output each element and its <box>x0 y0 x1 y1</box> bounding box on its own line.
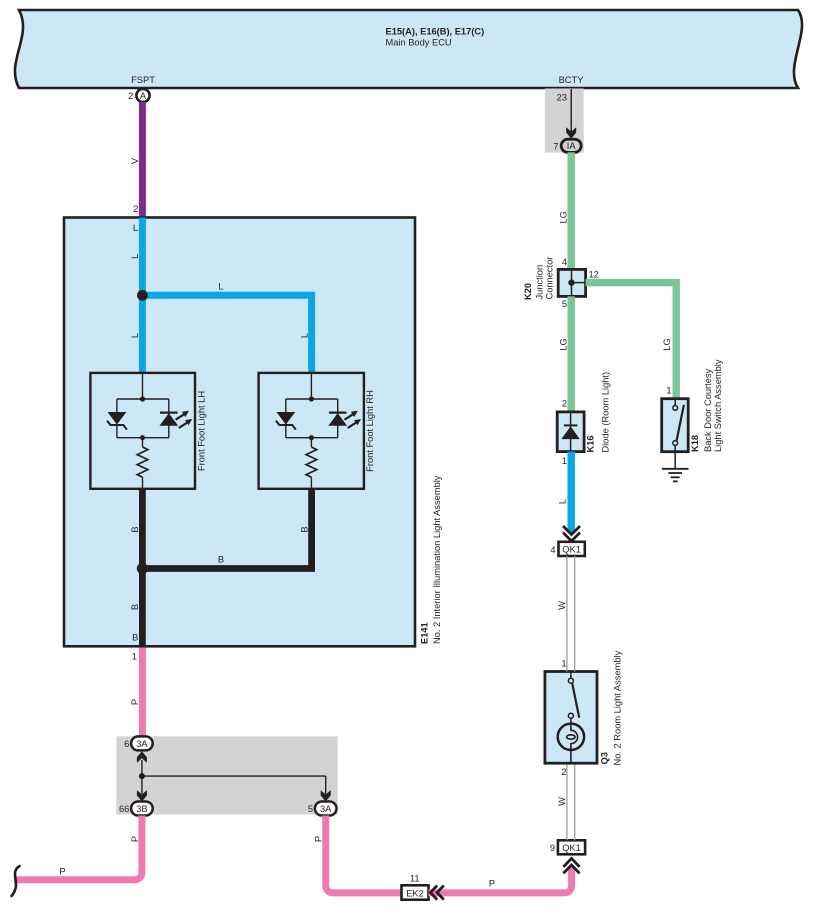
junction dot in gray box <box>139 773 145 779</box>
wire W white upper QK1 to Q3 <box>557 556 575 672</box>
resistor RH <box>306 438 317 489</box>
connector EK2 <box>402 874 429 900</box>
chevrons up into QK1 pin 9 <box>563 858 579 873</box>
svg-text:QK1: QK1 <box>562 843 581 853</box>
svg-text:1: 1 <box>132 652 137 662</box>
switch in Q3 <box>568 672 579 719</box>
wire LG green from IA to K20 <box>559 152 572 270</box>
svg-text:B: B <box>130 604 140 610</box>
junction black <box>137 563 148 574</box>
svg-text:3B: 3B <box>136 804 147 814</box>
svg-text:P: P <box>489 879 495 889</box>
svg-text:W: W <box>557 601 567 610</box>
svg-text:7: 7 <box>553 141 558 151</box>
Front Foot Light RH box <box>259 373 376 489</box>
svg-text:11: 11 <box>410 874 420 884</box>
svg-text:Light Switch Assembly: Light Switch Assembly <box>713 359 723 452</box>
svg-text:2: 2 <box>128 91 133 101</box>
svg-text:P: P <box>314 836 324 842</box>
svg-text:P: P <box>59 866 65 876</box>
bulb in Q3 <box>558 718 584 763</box>
svg-text:66: 66 <box>119 804 129 814</box>
chevrons left at EK2 <box>430 886 443 900</box>
wire W white lower from Q3 to QK1 <box>557 763 575 840</box>
svg-text:IA: IA <box>567 141 577 151</box>
pin 1 of E141 <box>132 652 137 662</box>
svg-text:L: L <box>133 223 138 233</box>
wire LG green branch K20 pin 12 to K18 <box>586 270 677 399</box>
svg-text:3A: 3A <box>136 739 148 749</box>
LH lamp internal wiring <box>117 373 169 440</box>
wire B black to E141 pin 1 <box>130 569 142 646</box>
svg-text:L: L <box>218 282 223 292</box>
svg-text:L: L <box>558 499 568 504</box>
svg-text:Back Door Courtesy: Back Door Courtesy <box>703 368 713 452</box>
LED RH <box>328 411 361 428</box>
svg-text:4: 4 <box>550 545 555 555</box>
Q3 No.2 Room Light Assembly box <box>545 650 623 776</box>
connector QK1 pin 9 <box>550 840 585 854</box>
arrow down into 3B <box>137 776 147 801</box>
svg-text:No. 2 Room Light Assembly: No. 2 Room Light Assembly <box>613 650 623 765</box>
LED LH <box>159 411 192 428</box>
svg-text:3A: 3A <box>320 804 332 814</box>
node FSPT label <box>131 75 155 85</box>
svg-text:1: 1 <box>666 386 671 396</box>
svg-text:L: L <box>300 333 310 338</box>
Front Foot Light LH box <box>90 373 206 489</box>
svg-text:Connector: Connector <box>545 257 555 300</box>
chevrons down into QK1 pin 4 <box>563 526 580 541</box>
svg-text:2: 2 <box>133 204 138 214</box>
svg-text:LG: LG <box>662 338 672 350</box>
wire P pink from 3A to EK2 <box>314 816 402 893</box>
svg-text:E15(A), E16(B), E17(C): E15(A), E16(B), E17(C) <box>386 27 485 37</box>
svg-text:Main Body ECU: Main Body ECU <box>386 38 452 48</box>
arrow up into 3A <box>137 751 147 776</box>
gray shield under BCTY <box>545 89 584 153</box>
svg-text:5: 5 <box>308 804 313 814</box>
svg-text:Diode (Room Light): Diode (Room Light) <box>601 372 611 453</box>
svg-text:5: 5 <box>562 299 567 309</box>
K16 diode (room light) <box>557 372 610 466</box>
svg-text:2: 2 <box>561 767 566 777</box>
svg-text:A: A <box>140 91 147 101</box>
svg-text:B: B <box>300 526 310 532</box>
svg-text:K16: K16 <box>586 435 596 452</box>
connector 6 3A <box>124 736 153 750</box>
svg-text:L: L <box>130 254 140 259</box>
connector 5 3A <box>308 802 337 816</box>
svg-text:E141: E141 <box>420 622 430 644</box>
svg-text:B: B <box>130 526 140 532</box>
K20 junction connector <box>523 257 586 300</box>
svg-text:LG: LG <box>559 338 569 350</box>
zener diode RH <box>276 412 296 430</box>
junction block gray box <box>116 736 337 814</box>
svg-text:P: P <box>130 836 140 842</box>
pin 2 connector A on FSPT <box>128 89 149 102</box>
wire L blue vertical right <box>300 333 310 338</box>
K18 back door courtesy light switch assembly <box>662 359 723 452</box>
svg-text:K18: K18 <box>690 435 700 452</box>
continuation squiggle <box>12 866 20 896</box>
node BCTY label <box>559 75 584 85</box>
svg-text:V: V <box>130 157 140 164</box>
svg-text:9: 9 <box>550 843 555 853</box>
wire P pink from 3B to left edge <box>14 816 142 880</box>
svg-text:4: 4 <box>562 257 567 267</box>
svg-text:No. 2 Interior Illumination L: No. 2 Interior Illumination Light Assemb… <box>432 475 442 644</box>
junction blue <box>137 290 148 301</box>
wire P pink from E141 to junction block <box>130 648 142 738</box>
svg-text:Q3: Q3 <box>600 752 610 764</box>
wire L blue horizontal branch <box>142 282 311 374</box>
svg-text:Front Foot Light RH: Front Foot Light RH <box>365 390 375 472</box>
svg-text:QK1: QK1 <box>562 545 581 555</box>
svg-text:2: 2 <box>562 399 567 409</box>
wire B black vertical from LH <box>130 489 142 569</box>
svg-text:L: L <box>130 333 140 338</box>
svg-text:Junction: Junction <box>535 265 545 300</box>
connector 66 3B <box>119 802 153 816</box>
E141 No.2 Interior Illumination Light Assembly box <box>64 218 442 647</box>
svg-text:K20: K20 <box>523 283 533 300</box>
wire LG green K20 to K16 <box>559 296 572 412</box>
svg-text:EK2: EK2 <box>406 888 424 898</box>
resistor LH <box>137 438 148 489</box>
svg-text:Front Foot Light LH: Front Foot Light LH <box>196 391 206 471</box>
svg-text:1: 1 <box>561 658 566 668</box>
RH lamp internal wiring <box>286 373 338 440</box>
svg-text:6: 6 <box>124 739 129 749</box>
wire L blue vertical left <box>130 218 142 374</box>
internal link wire <box>142 775 326 777</box>
arrow down into 3A right <box>321 776 331 801</box>
svg-text:23: 23 <box>557 93 567 103</box>
ECU banner E15(A), E16(B), E17(C) Main Body ECU <box>15 10 802 88</box>
wire B black vertical from RH <box>142 489 311 569</box>
wire P pink from EK2 to QK1 <box>429 866 572 893</box>
connector QK1 pin 4 <box>550 542 584 556</box>
wire B black horizontal <box>218 555 224 565</box>
svg-text:W: W <box>557 797 567 806</box>
wire V violet from pin A to E141 pin 2 <box>130 102 142 218</box>
pin 23 lead with arrow <box>557 89 577 139</box>
ground for K18 <box>662 452 689 482</box>
svg-text:1: 1 <box>562 456 567 466</box>
svg-text:B: B <box>132 633 138 643</box>
svg-text:12: 12 <box>589 270 599 280</box>
connector IA pin 7 <box>553 139 581 152</box>
svg-text:LG: LG <box>559 211 569 223</box>
svg-text:FSPT: FSPT <box>131 75 155 85</box>
wire L blue K16 to QK1 <box>558 452 572 533</box>
svg-text:P: P <box>130 699 140 705</box>
svg-text:B: B <box>218 555 224 565</box>
zener diode LH <box>107 412 127 430</box>
svg-text:BCTY: BCTY <box>559 75 584 85</box>
